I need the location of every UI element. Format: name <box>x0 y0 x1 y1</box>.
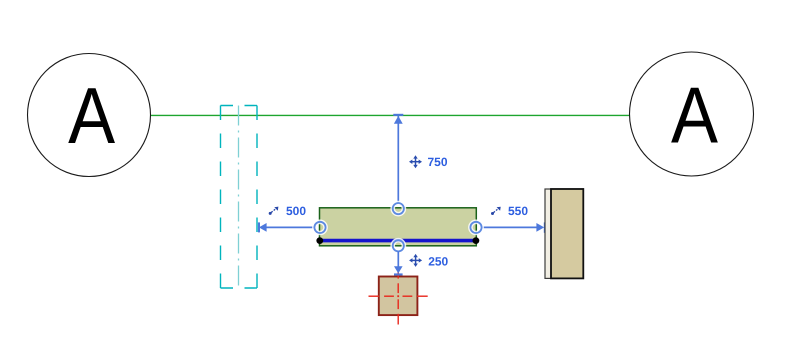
dimension 250 line <box>394 251 403 275</box>
wall (green) <box>320 208 477 246</box>
red centerline horizontal (bottom square) <box>369 295 428 297</box>
grid line A (green) <box>151 114 630 116</box>
column right (tan with reveal) <box>545 189 583 278</box>
dimension 550 line <box>482 222 546 232</box>
red centerline vertical (bottom square) <box>397 268 399 325</box>
wall handle circle left <box>314 222 325 233</box>
svg-text:750: 750 <box>428 155 448 169</box>
move icon 250 <box>409 254 422 267</box>
svg-text:500: 500 <box>286 204 306 218</box>
wall handle circle right <box>470 222 481 233</box>
column centerline (light teal) <box>238 106 240 289</box>
svg-text:550: 550 <box>508 204 528 218</box>
wall handle circle bottom <box>393 240 404 251</box>
drag arrow icon 500 <box>269 207 279 215</box>
move icon 750 <box>409 155 422 168</box>
grid bubble right <box>630 52 754 176</box>
wall end dot right <box>473 237 480 244</box>
dimension 750 line <box>393 114 403 203</box>
column marker square (tan, red border) <box>379 277 418 316</box>
wall handle circle top <box>393 203 404 214</box>
dimension 500 line <box>258 222 315 232</box>
svg-text:A: A <box>68 71 115 160</box>
dashed column outline (cyan) <box>221 106 258 289</box>
wall end dot left <box>316 237 323 244</box>
svg-text:250: 250 <box>428 254 448 268</box>
drag arrow icon 550 <box>491 207 501 215</box>
grid bubble left <box>28 54 151 177</box>
wall location line (blue) <box>320 239 477 243</box>
red center dot <box>397 295 399 297</box>
svg-text:A: A <box>671 70 718 159</box>
